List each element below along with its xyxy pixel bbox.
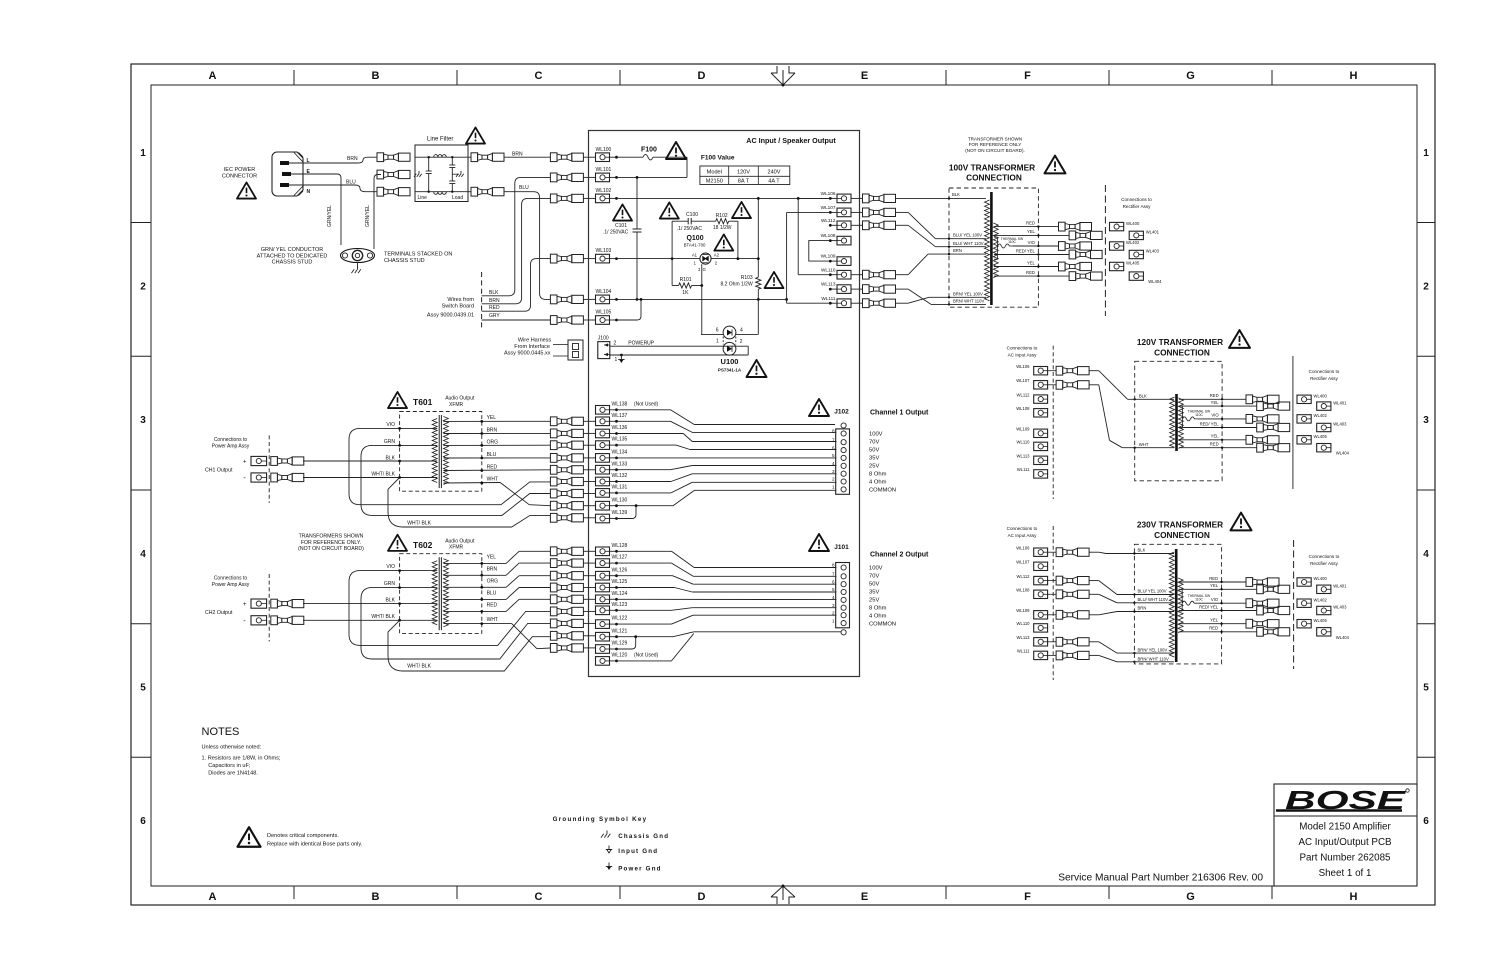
svg-text:RED/ YEL: RED/ YEL [1199, 604, 1219, 609]
wire 230V secondary YEL [1179, 623, 1246, 625]
svg-text:WL100: WL100 [596, 147, 612, 153]
svg-text:(Not Used): (Not Used) [634, 653, 659, 659]
transformer 100V secondary windings [993, 223, 998, 278]
terminal 100V WL401 [1129, 231, 1143, 239]
svg-text:4: 4 [740, 328, 743, 334]
svg-text:70V: 70V [869, 440, 879, 446]
svg-text:YEL: YEL [1210, 583, 1219, 588]
svg-text:Assy 9000.0439.01: Assy 9000.0439.01 [427, 313, 474, 319]
input gnd key [608, 846, 610, 850]
svg-text:5: 5 [140, 683, 146, 694]
svg-text:WL137: WL137 [612, 413, 628, 419]
svg-text:Rectifier Assy: Rectifier Assy [1310, 376, 1339, 381]
svg-text:WL120: WL120 [612, 653, 628, 659]
svg-text:C: C [535, 70, 543, 82]
svg-text:CONNECTION: CONNECTION [1154, 530, 1210, 540]
connector pair WL132 [550, 477, 557, 486]
svg-text:120V TRANSFORMER: 120V TRANSFORMER [1137, 337, 1223, 347]
wire WL104 row [617, 298, 787, 300]
line filter right caps [451, 157, 453, 165]
svg-text:WL404: WL404 [1336, 635, 1350, 640]
svg-text:(NOT ON CIRCUIT BOARD): (NOT ON CIRCUIT BOARD) [298, 546, 364, 552]
svg-text:Audio Output: Audio Output [445, 396, 475, 402]
svg-text:ORG: ORG [487, 440, 499, 446]
svg-text:BRN: BRN [512, 152, 523, 158]
svg-text:6: 6 [140, 816, 146, 827]
svg-text:AC Input Assy: AC Input Assy [1008, 533, 1038, 538]
svg-text:WL109: WL109 [1016, 427, 1030, 432]
transformer 120V primary windings [1170, 397, 1175, 447]
svg-text:1: 1 [716, 339, 719, 345]
connector pair WL123 [550, 607, 557, 616]
wire 100V secondary YEL [994, 266, 1059, 268]
connector pair WL121 [550, 631, 557, 640]
connector pair 230V WL109 [1048, 614, 1057, 616]
svg-text:WL125: WL125 [612, 579, 628, 585]
terminal CH1- [251, 473, 267, 482]
transformer T602 windings [432, 561, 437, 625]
connector pair CH2- [271, 616, 278, 625]
wire WL105 to WL104 [617, 299, 642, 320]
warning 120V [1229, 330, 1250, 348]
transformer 100V core [990, 192, 993, 305]
connector pair 100V sec 5 [1059, 262, 1066, 271]
wire WL136 [617, 433, 684, 435]
svg-text:3: 3 [1423, 415, 1429, 426]
svg-text:RED/ YEL: RED/ YEL [1200, 421, 1220, 426]
svg-text:8.2 Ohm 1/2W: 8.2 Ohm 1/2W [720, 282, 753, 288]
svg-text:R102: R102 [716, 213, 728, 219]
svg-text:CHASSIS STUD: CHASSIS STUD [384, 258, 425, 264]
svg-text:BRN: BRN [489, 298, 500, 304]
svg-text:WL109: WL109 [1016, 608, 1030, 613]
svg-text:+: + [243, 602, 247, 608]
connector pair WL102 [550, 194, 557, 203]
svg-text:WL131: WL131 [612, 485, 628, 491]
svg-text:6: 6 [832, 445, 835, 450]
wire ORG [443, 444, 550, 446]
connector pair WL139 [550, 513, 557, 522]
connector pair 100V WL106 [863, 194, 870, 203]
terminal WL120 [596, 657, 610, 666]
transformer 230V box [1134, 544, 1221, 664]
terminal WL139 [596, 514, 610, 523]
connector pair E [377, 170, 384, 179]
svg-text:RED: RED [1210, 442, 1219, 447]
wire WL124 [617, 598, 837, 600]
terminal WL128 [596, 547, 610, 556]
wire 230V BRN [1089, 614, 1099, 616]
chassis gnd key [606, 831, 608, 834]
wire BLU filter to pair [468, 191, 471, 193]
warning J101 [809, 534, 829, 551]
connector pair 230V WL113 [1048, 641, 1057, 643]
terminal CH2+ [251, 599, 267, 608]
svg-text:WL105: WL105 [596, 310, 612, 316]
wire WL120 [617, 660, 672, 662]
wire WL132 [617, 481, 672, 483]
chassis gnd in filter left [418, 171, 420, 174]
svg-text:COMMON: COMMON [869, 622, 896, 628]
wire 100V secondary RED/ YEL [994, 254, 1069, 256]
svg-text:4A T: 4A T [768, 178, 780, 184]
wire 120V WHT [1089, 384, 1099, 386]
svg-text:BLU/ YEL 100V: BLU/ YEL 100V [1138, 589, 1167, 594]
svg-text:WHT: WHT [487, 477, 498, 483]
terminal WL124 [596, 595, 610, 604]
svg-text:WL106: WL106 [821, 191, 836, 196]
svg-text:2: 2 [1423, 282, 1429, 293]
svg-text:25V: 25V [869, 598, 879, 604]
svg-text:E: E [861, 891, 868, 903]
wire E down to chassis stud [291, 174, 341, 245]
svg-text:T602: T602 [413, 540, 433, 550]
svg-text:3: 3 [140, 415, 146, 426]
svg-text:8 Ohm: 8 Ohm [869, 606, 887, 612]
svg-text:C: C [535, 891, 543, 903]
svg-text:R103: R103 [741, 275, 753, 281]
svg-text:WL138: WL138 [612, 401, 628, 407]
connector pair WL136 [550, 429, 557, 438]
connector pair BRN [471, 153, 478, 162]
separator 230V rectifier [1293, 540, 1295, 669]
terminal 230V WL109 [1034, 611, 1048, 619]
terminal CH2- [251, 616, 267, 625]
terminal 230V WL107 [1034, 562, 1048, 570]
terminal 120V WL403 [1317, 423, 1331, 431]
resistor R101 [671, 259, 673, 286]
transformer 230V secondary windings [1178, 578, 1183, 633]
svg-text:BRN/ WHT 110V: BRN/ WHT 110V [1138, 656, 1169, 661]
connector pair 120V sec 3 [1246, 415, 1253, 424]
svg-text:WL401: WL401 [1146, 230, 1160, 235]
svg-text:WL110: WL110 [821, 267, 836, 272]
svg-text:8: 8 [832, 429, 835, 434]
transformer 230V primary windings [1169, 552, 1174, 657]
svg-text:AC Input / Speaker Output: AC Input / Speaker Output [746, 136, 836, 145]
wire GRY to WL105 [482, 319, 551, 321]
svg-text:WHT/ BLK: WHT/ BLK [371, 472, 395, 478]
svg-text:WL104: WL104 [596, 289, 612, 295]
terminal WL126 [596, 571, 610, 580]
svg-text:WL121: WL121 [612, 628, 628, 634]
connector pair WL135 [550, 441, 557, 450]
svg-text:RED: RED [1210, 393, 1219, 398]
wire 100V WL111 [896, 302, 909, 304]
svg-text:YEL: YEL [1027, 260, 1036, 265]
terminal 230V WL111 [1034, 651, 1048, 659]
svg-text:WL112: WL112 [1017, 392, 1031, 397]
svg-text:NOTES: NOTES [202, 726, 240, 738]
connector pair 230V WL111 [1048, 654, 1057, 656]
warning 100V [1045, 156, 1066, 174]
svg-text:3: 3 [832, 603, 835, 608]
svg-text:BLU: BLU [346, 180, 356, 186]
terminal WL134 [596, 454, 610, 463]
connector pair 120V sec 5 [1246, 435, 1253, 444]
wire 100V WL113 [896, 288, 909, 290]
svg-text:VIO: VIO [386, 564, 395, 570]
warning C100 [660, 202, 679, 218]
svg-text:FOR REFERENCE ONLY: FOR REFERENCE ONLY [969, 142, 1022, 147]
ground J100 [620, 356, 622, 360]
svg-text:GRY: GRY [489, 313, 500, 319]
svg-text:F100 Value: F100 Value [701, 155, 735, 162]
connector pair BLU [471, 187, 478, 196]
svg-text:CH1 Output: CH1 Output [205, 468, 233, 474]
svg-text:BRN: BRN [487, 427, 498, 433]
wire 120V secondary RED/ YEL [1179, 427, 1257, 429]
connector pair WL127 [550, 559, 557, 568]
gate wire Q100 to U100 [701, 264, 703, 334]
separator 100V rectifier [1104, 185, 1106, 316]
terminal 230V WL405 [1297, 620, 1311, 628]
connector pair 120V sec 1 [1246, 395, 1253, 404]
svg-text:WL101: WL101 [596, 167, 612, 173]
terminal 120V WL404 [1317, 444, 1331, 452]
connector pair 100V sec 4 [1069, 250, 1076, 259]
wire WHT t602 [443, 623, 511, 625]
connector pair 100V sec 2 [1069, 231, 1076, 240]
wire WHT/BLK loop [388, 478, 550, 528]
connector pair 230V WL112 [1048, 580, 1057, 582]
connector pair 230V sec 1 [1246, 578, 1253, 587]
transformer 100V primary windings [985, 200, 990, 301]
wire stud up to connector [374, 175, 381, 250]
svg-text:T601: T601 [413, 397, 433, 407]
svg-text:WL130: WL130 [612, 497, 628, 503]
svg-text:WL403: WL403 [1333, 422, 1347, 427]
warning denotes critical [238, 827, 261, 847]
wire 100V WL107 [896, 211, 909, 213]
connector pair 230V WL108 [1048, 593, 1057, 595]
terminal WL132 [596, 477, 610, 486]
inductor top [434, 155, 447, 158]
wire 230V secondary RED/ YEL [1179, 610, 1257, 612]
terminal WL101 [596, 173, 610, 182]
svg-text:Diodes are 1N4148.: Diodes are 1N4148. [208, 771, 258, 777]
svg-text:U100: U100 [721, 357, 739, 366]
terminal WL104 [596, 295, 610, 304]
connector pair 100V WL112 [863, 221, 870, 230]
svg-text:From Interface: From Interface [514, 344, 550, 350]
svg-text:D: D [698, 891, 706, 903]
svg-text:WL108: WL108 [1016, 406, 1030, 411]
svg-text:Audio Output: Audio Output [445, 538, 475, 544]
svg-text:A: A [209, 891, 217, 903]
connector J102 [836, 429, 850, 494]
svg-text:1. Resistors are 1/8W, in Ohms: 1. Resistors are 1/8W, in Ohms; [202, 756, 281, 762]
svg-text:WL102: WL102 [596, 188, 612, 194]
svg-text:1K: 1K [682, 290, 689, 296]
connector pair CH1- [271, 473, 278, 482]
svg-text:2: 2 [614, 341, 617, 347]
svg-text:WL107: WL107 [821, 205, 836, 210]
connector pair WL105 [550, 316, 557, 325]
svg-text:G: G [1186, 891, 1195, 903]
wire WL108-WL109 loop [809, 241, 831, 262]
chassis gnd in filter right [460, 171, 462, 174]
wire ORG t602 [443, 586, 506, 588]
svg-text:Power Amp Assy: Power Amp Assy [212, 582, 250, 588]
svg-text:1: 1 [615, 357, 618, 363]
wire BLU r [443, 457, 550, 459]
svg-text:D: D [698, 70, 706, 82]
connector pair 120V sec 2 [1257, 402, 1264, 411]
terminal WL130 [596, 501, 610, 510]
connector pair 230V sec 2 [1257, 585, 1264, 594]
terminal 120V WL111 [1034, 470, 1048, 478]
svg-text:7: 7 [832, 437, 835, 442]
svg-text:BLU: BLU [519, 185, 529, 191]
wire WL102 to right [617, 197, 831, 199]
wire 120V secondary RED [1179, 398, 1246, 400]
svg-text:WL122: WL122 [612, 616, 628, 622]
connector pair 120V WL106 [1048, 370, 1057, 372]
svg-text:G: G [703, 267, 706, 272]
connector pair WL137 [550, 417, 557, 426]
svg-text:GRN: GRN [384, 439, 396, 445]
terminal 120V WL401 [1317, 402, 1331, 410]
svg-text:BRN/ YEL 100V: BRN/ YEL 100V [1138, 647, 1168, 652]
svg-text:WL113: WL113 [1017, 454, 1031, 459]
title block box [1274, 784, 1417, 886]
wire WL139 [617, 506, 637, 519]
svg-text:110C: 110C [1195, 413, 1203, 417]
wire 100V WL112 [896, 224, 909, 226]
wire WL133 [617, 469, 671, 471]
svg-text:POWERUP: POWERUP [628, 340, 655, 346]
terminal 120V WL112 [1034, 395, 1048, 403]
wire BLK to WL101 [482, 177, 551, 295]
wire L to line filter [289, 162, 358, 164]
svg-text:.1/ 250VAC: .1/ 250VAC [677, 226, 703, 232]
connector pair WL124 [550, 595, 557, 604]
svg-text:BLK: BLK [1138, 548, 1146, 553]
connector pair L [377, 153, 384, 162]
IEC power connector [272, 152, 303, 196]
svg-text:WL129: WL129 [612, 641, 628, 647]
svg-text:ATTACHED TO DEDICATED: ATTACHED TO DEDICATED [257, 253, 328, 259]
svg-text:B: B [372, 891, 380, 903]
transformer 120V box [1135, 361, 1222, 481]
terminal 120V WL113 [1034, 456, 1048, 464]
terminal WL133 [596, 465, 610, 474]
svg-text:A: A [209, 70, 217, 82]
terminal WL127 [596, 559, 610, 568]
svg-text:Rectifier Assy: Rectifier Assy [1310, 561, 1339, 566]
connector pair 120V sec 4 [1257, 423, 1264, 432]
wire WL110 row [798, 274, 830, 276]
svg-text:E: E [861, 70, 868, 82]
svg-text:BLU/ WHT 110V: BLU/ WHT 110V [1138, 597, 1169, 602]
warning Q100 [714, 234, 733, 250]
svg-text:Input Gnd: Input Gnd [618, 848, 658, 855]
svg-text:BLU/ YEL 100V: BLU/ YEL 100V [953, 233, 982, 238]
svg-text:WL106: WL106 [1016, 364, 1030, 369]
svg-text:RED/ YEL: RED/ YEL [1016, 248, 1036, 253]
wire 100V secondary RED [994, 275, 1069, 277]
svg-text:7: 7 [832, 572, 835, 577]
svg-text:5: 5 [832, 587, 835, 592]
connector pair WL100 [550, 153, 557, 162]
terminal WL129 [596, 645, 610, 654]
svg-text:TRANSFORMERS SHOWN: TRANSFORMERS SHOWN [299, 534, 364, 540]
connector pair 230V WL106 [1048, 551, 1057, 553]
terminal WL121 [596, 632, 610, 641]
svg-text:4 Ohm: 4 Ohm [869, 614, 887, 620]
terminal WL106 [837, 194, 851, 203]
svg-text:FOR REFERENCE ONLY.: FOR REFERENCE ONLY. [301, 540, 361, 546]
capacitor C101 [636, 177, 638, 229]
connector pair N [377, 187, 384, 196]
svg-text:2: 2 [832, 610, 835, 615]
wire WL107 row [787, 211, 831, 213]
wire WL129 [617, 637, 636, 649]
terminal WL131 [596, 489, 610, 498]
terminal 120V WL110 [1034, 442, 1048, 450]
terminal WL138 [596, 406, 610, 415]
svg-text:RED: RED [489, 305, 500, 311]
warning J102 [809, 399, 829, 416]
terminal 120V WL402 [1297, 415, 1311, 423]
svg-text:WL402: WL402 [1126, 240, 1140, 245]
terminal 120V WL400 [1297, 395, 1311, 403]
svg-text:A2: A2 [714, 252, 720, 257]
wire 230V secondary YEL [1179, 588, 1257, 590]
svg-text:WL134: WL134 [612, 450, 628, 456]
wire WL134 [617, 457, 837, 459]
svg-text:Line: Line [418, 195, 428, 201]
svg-text:Line Filter: Line Filter [427, 137, 453, 143]
terminal CH1+ [251, 456, 267, 465]
wire WL127 [617, 562, 672, 564]
svg-text:BLK: BLK [386, 598, 396, 604]
svg-text:YEL: YEL [487, 555, 497, 561]
svg-text:Rectifier Assy: Rectifier Assy [1123, 204, 1152, 209]
svg-text:B: B [372, 70, 380, 82]
svg-text:GRN: GRN [384, 581, 396, 587]
connector pair 100V sec 1 [1059, 222, 1066, 231]
svg-text:XFMR: XFMR [449, 402, 464, 408]
wire BRN to WL100 [504, 156, 550, 158]
wire WHT r [443, 482, 500, 485]
connector pair WL129 [550, 644, 557, 653]
connector pair 100V WL107 [863, 208, 870, 217]
svg-text:BRN: BRN [953, 248, 962, 253]
wire J100 pin2 to U100 [610, 345, 748, 347]
svg-text:Connections to: Connections to [1121, 197, 1152, 202]
svg-text:4: 4 [1423, 549, 1429, 560]
svg-text:WHT/ BLK: WHT/ BLK [407, 664, 431, 670]
terminal 230V WL108 [1034, 590, 1048, 598]
svg-text:WL128: WL128 [612, 543, 628, 549]
wire WL106 row [798, 197, 830, 199]
wire VIO loop 2 [349, 571, 550, 646]
svg-text:BRN: BRN [347, 156, 358, 162]
svg-text:BLK: BLK [952, 192, 960, 197]
svg-text:Replace with identical Bose pa: Replace with identical Bose parts only. [267, 842, 363, 848]
svg-text:YEL: YEL [1211, 400, 1220, 405]
wire GRN loop 2 [361, 588, 550, 659]
wire RED t602 [443, 610, 506, 612]
svg-text:50V: 50V [869, 448, 879, 454]
terminal 120V WL108 [1034, 409, 1048, 417]
svg-text:J102: J102 [834, 409, 849, 416]
svg-text:AC Input Assy: AC Input Assy [1008, 353, 1038, 358]
connector pair WL122 [550, 619, 557, 628]
warning 230V [1231, 513, 1252, 531]
